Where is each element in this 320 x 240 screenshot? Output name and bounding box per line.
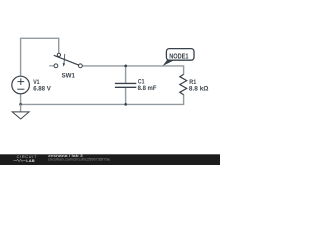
value 8.8 mF <box>138 85 157 92</box>
junction dot at V1 ground node <box>19 103 22 106</box>
junction dot at C1 top <box>124 65 127 68</box>
label V1 <box>33 79 39 86</box>
switch SW1 open throw stub <box>49 65 54 67</box>
label SW1 <box>62 73 76 80</box>
label R1 <box>189 79 196 86</box>
wire bottom net <box>21 94 184 104</box>
label C1 <box>138 79 145 86</box>
resistor R1 <box>180 74 187 94</box>
svg-text:LAB: LAB <box>26 159 35 163</box>
svg-text:8.8 kΩ: 8.8 kΩ <box>189 86 209 93</box>
voltage source V1 <box>12 76 30 94</box>
value 8.8 kOhm <box>189 86 209 93</box>
switch SW1 blade <box>54 55 79 65</box>
watermark url text <box>48 158 110 162</box>
capacitor C1 bottom plate <box>115 86 136 88</box>
wire C1 top lead <box>125 66 127 83</box>
switch SW1 actuator arrow <box>63 54 65 67</box>
switch SW1 top terminal <box>57 53 60 56</box>
watermark bar <box>0 154 220 165</box>
svg-text:6.88 V: 6.88 V <box>33 85 51 92</box>
node flag NODE1 tail <box>163 59 174 66</box>
value 6.88 V <box>33 85 51 92</box>
svg-text:NODE1: NODE1 <box>169 51 188 60</box>
svg-text:8.8 mF: 8.8 mF <box>138 85 157 92</box>
svg-text:SW1: SW1 <box>62 73 76 80</box>
wire C1 bottom lead <box>125 88 127 105</box>
node flag NODE1 <box>166 49 194 61</box>
wire top loop from V1 to SW1 <box>21 38 59 75</box>
ground <box>12 104 29 119</box>
watermark CircuitLab logo <box>14 155 37 163</box>
wire main horizontal net from SW1 to R1 corner <box>82 66 183 75</box>
svg-text:circuitlab.com/circuit/c259673: circuitlab.com/circuit/c2596735f7be <box>48 158 110 162</box>
switch SW1 left terminal <box>54 64 58 68</box>
watermark title text <box>48 154 83 158</box>
switch SW1 right terminal <box>79 64 83 68</box>
capacitor C1 top plate <box>115 82 136 84</box>
junction dot at C1 bottom <box>124 103 127 106</box>
